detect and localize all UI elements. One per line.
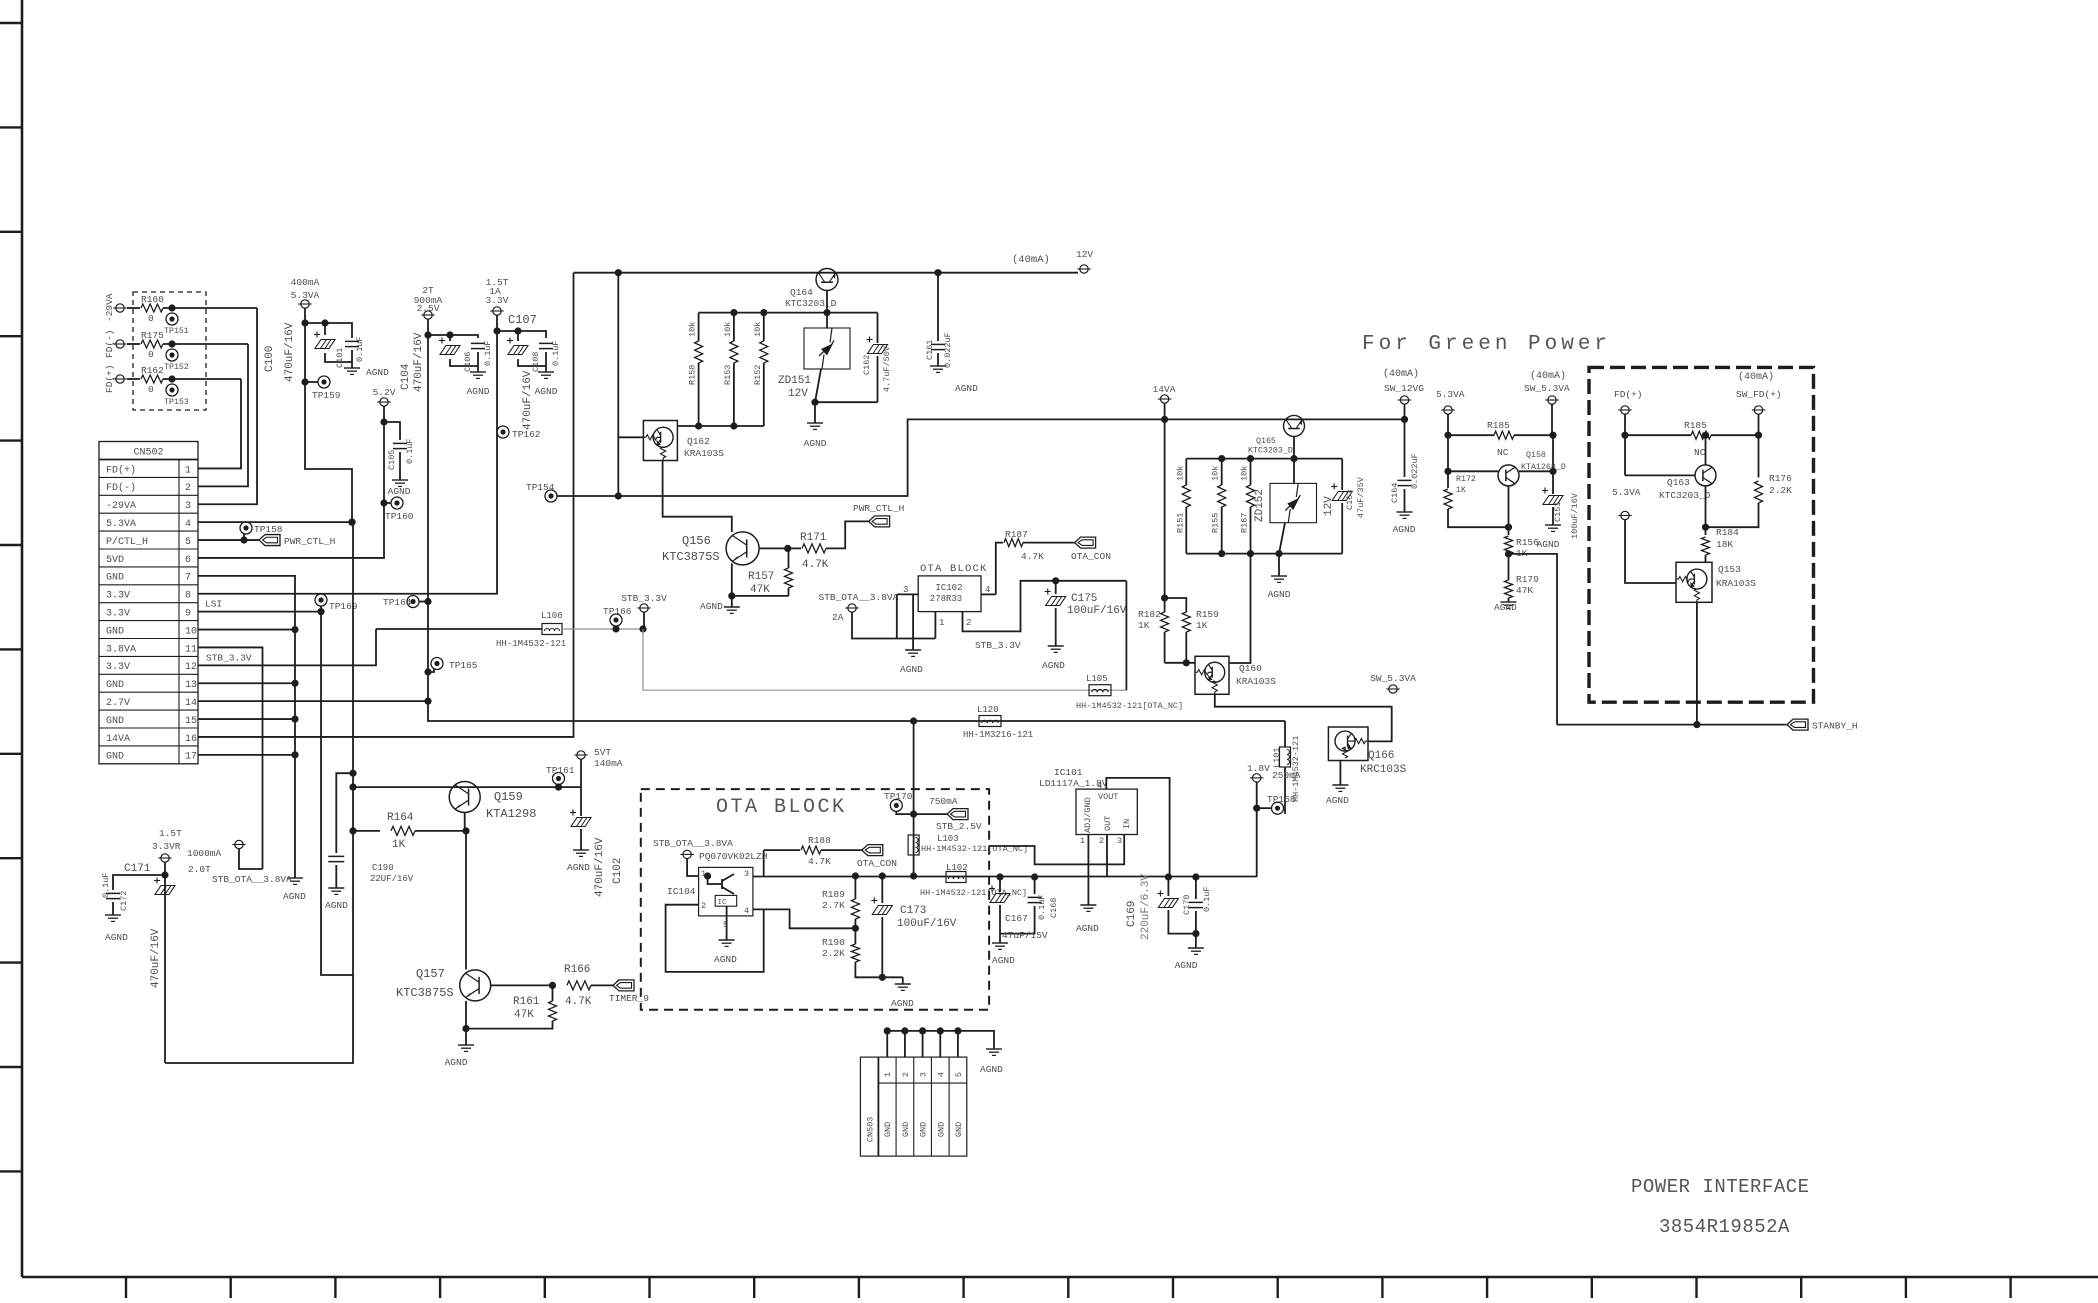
svg-text:KTA1298: KTA1298: [486, 807, 536, 821]
svg-text:R172: R172: [1456, 475, 1476, 484]
svg-text:0.1uF: 0.1uF: [101, 872, 111, 898]
svg-text:OUT: OUT: [1103, 816, 1113, 831]
svg-text:C100: C100: [264, 346, 276, 372]
svg-text:R187: R187: [1005, 529, 1028, 540]
svg-text:L103: L103: [937, 834, 959, 844]
svg-text:AGND: AGND: [714, 954, 737, 965]
svg-text:R152: R152: [753, 365, 763, 385]
svg-text:Q158: Q158: [1526, 451, 1546, 460]
svg-text:KTA1268_D: KTA1268_D: [1521, 463, 1566, 472]
svg-text:5: 5: [954, 1072, 964, 1077]
svg-text:GND: GND: [954, 1122, 964, 1137]
svg-text:SW_12VG: SW_12VG: [1384, 383, 1424, 394]
svg-text:AGND: AGND: [567, 862, 590, 873]
svg-text:14: 14: [185, 698, 197, 709]
svg-text:18K: 18K: [1716, 539, 1733, 550]
svg-text:C167: C167: [1005, 913, 1028, 924]
svg-text:Q153: Q153: [1718, 564, 1741, 575]
svg-text:OTA_CON: OTA_CON: [857, 858, 897, 869]
svg-text:10k: 10k: [1175, 466, 1185, 481]
svg-text:R167: R167: [1240, 513, 1250, 533]
svg-text:HH-1M4532-121: HH-1M4532-121: [1291, 736, 1301, 802]
svg-text:VOUT: VOUT: [1098, 792, 1118, 802]
svg-text:4: 4: [936, 1072, 946, 1077]
svg-text:AGND: AGND: [804, 438, 827, 449]
svg-text:AGND: AGND: [1537, 539, 1560, 550]
svg-text:GND: GND: [919, 1122, 929, 1137]
svg-text:STB_OTA__3.8VA: STB_OTA__3.8VA: [653, 838, 733, 849]
svg-text:(40mA): (40mA): [1530, 370, 1566, 382]
svg-text:AGND: AGND: [1393, 524, 1416, 535]
svg-text:GND: GND: [106, 752, 124, 763]
svg-text:AGND: AGND: [1076, 923, 1099, 934]
svg-text:14VA: 14VA: [1153, 384, 1176, 395]
svg-text:2.5V: 2.5V: [417, 303, 440, 314]
svg-text:GND: GND: [106, 680, 124, 691]
svg-text:3: 3: [919, 1072, 929, 1077]
svg-text:For Green Power: For Green Power: [1362, 333, 1611, 356]
svg-text:4.7uF/50V: 4.7uF/50V: [882, 345, 892, 392]
svg-text:3.3V: 3.3V: [106, 591, 130, 602]
svg-text:0.1uF: 0.1uF: [355, 336, 365, 362]
svg-text:R157: R157: [748, 571, 774, 583]
svg-text:C168: C168: [1049, 898, 1059, 918]
svg-text:FD(-): FD(-): [106, 482, 136, 494]
svg-text:4.7K: 4.7K: [1021, 551, 1044, 562]
svg-text:7: 7: [185, 573, 191, 584]
svg-text:AGND: AGND: [388, 486, 411, 497]
svg-text:1: 1: [883, 1072, 893, 1077]
svg-text:TP162: TP162: [512, 429, 541, 440]
svg-text:4: 4: [985, 585, 990, 595]
svg-text:100uF/16V: 100uF/16V: [1570, 492, 1580, 539]
svg-text:STB_OTA__3.8VA: STB_OTA__3.8VA: [212, 874, 292, 885]
svg-text:KTC3875S: KTC3875S: [662, 550, 720, 564]
svg-text:17: 17: [185, 752, 197, 763]
svg-text:AGND: AGND: [325, 900, 348, 911]
svg-text:KRA103S: KRA103S: [1236, 676, 1276, 687]
svg-text:4: 4: [1097, 781, 1102, 791]
svg-text:L102: L102: [946, 863, 968, 873]
svg-text:0.022uF: 0.022uF: [1410, 453, 1420, 489]
svg-text:2: 2: [185, 483, 191, 494]
svg-text:10k: 10k: [723, 322, 733, 337]
svg-text:R190: R190: [822, 937, 845, 948]
svg-text:TP164: TP164: [383, 597, 412, 608]
svg-text:14VA: 14VA: [106, 734, 130, 745]
svg-text:5VT: 5VT: [594, 747, 611, 758]
svg-text:5.3VA: 5.3VA: [1612, 487, 1641, 498]
svg-text:ZD152: ZD152: [1254, 489, 1266, 522]
svg-text:R156: R156: [1516, 537, 1539, 548]
svg-text:AGND: AGND: [980, 1064, 1003, 1075]
svg-text:Q156: Q156: [682, 534, 711, 548]
svg-text:12: 12: [185, 662, 197, 673]
svg-text:AGND: AGND: [105, 932, 128, 943]
svg-text:C151: C151: [1553, 502, 1563, 522]
svg-text:GND: GND: [106, 716, 124, 727]
svg-text:1K: 1K: [1138, 620, 1150, 631]
svg-text:4: 4: [185, 519, 191, 530]
svg-text:R161: R161: [513, 996, 540, 1008]
svg-text:LSI: LSI: [205, 599, 222, 610]
svg-text:0.1uF: 0.1uF: [551, 340, 561, 366]
svg-text:220uF/6.3V: 220uF/6.3V: [1140, 874, 1152, 940]
svg-text:STB_3.3V: STB_3.3V: [621, 593, 667, 604]
svg-text:3: 3: [1117, 836, 1122, 846]
svg-text:2.7K: 2.7K: [822, 900, 845, 911]
svg-text:(40mA): (40mA): [1012, 254, 1050, 266]
svg-text:Q163: Q163: [1667, 477, 1690, 488]
svg-text:1.5T: 1.5T: [159, 828, 182, 839]
svg-text:10: 10: [185, 626, 197, 637]
svg-text:100uF/16V: 100uF/16V: [897, 918, 957, 930]
svg-text:47uF/15V: 47uF/15V: [1002, 930, 1048, 941]
svg-text:278R33: 278R33: [930, 594, 962, 604]
svg-text:R185: R185: [1487, 420, 1510, 431]
svg-text:2: 2: [901, 1072, 911, 1077]
svg-text:Q164: Q164: [790, 287, 813, 298]
svg-text:47K: 47K: [1516, 585, 1533, 596]
svg-text:CN503: CN503: [865, 1117, 875, 1143]
svg-text:2: 2: [1099, 836, 1104, 846]
svg-text:P/CTL_H: P/CTL_H: [106, 536, 148, 548]
svg-text:SW_5.3VA: SW_5.3VA: [1524, 383, 1570, 394]
svg-text:5.3VA: 5.3VA: [291, 290, 320, 301]
svg-text:TP152: TP152: [164, 363, 189, 372]
svg-text:47K: 47K: [750, 584, 770, 596]
svg-text:TP154: TP154: [526, 482, 555, 493]
svg-text:4.7K: 4.7K: [802, 559, 829, 571]
svg-text:C105: C105: [387, 450, 397, 470]
svg-text:0.1uF: 0.1uF: [405, 438, 415, 464]
svg-text:8: 8: [185, 591, 191, 602]
svg-text:12V: 12V: [788, 388, 808, 400]
svg-text:ZD151: ZD151: [778, 375, 811, 387]
svg-text:13: 13: [185, 680, 197, 691]
svg-text:R160: R160: [141, 294, 164, 305]
svg-text:STB_3.3V: STB_3.3V: [206, 652, 252, 663]
svg-text:HH-1M4532-121[OTA_NC]: HH-1M4532-121[OTA_NC]: [920, 888, 1027, 898]
svg-text:R171: R171: [800, 532, 827, 544]
svg-text:L106: L106: [541, 611, 563, 621]
svg-text:15: 15: [185, 716, 197, 727]
svg-text:0.022uF: 0.022uF: [943, 332, 953, 368]
svg-text:-29VA: -29VA: [104, 293, 115, 322]
svg-text:5: 5: [185, 537, 191, 548]
svg-text:KRC103S: KRC103S: [1360, 764, 1407, 776]
svg-text:AGND: AGND: [535, 386, 558, 397]
svg-text:2.0T: 2.0T: [188, 864, 211, 875]
svg-text:AGND: AGND: [1326, 795, 1349, 806]
svg-text:Q160: Q160: [1239, 663, 1262, 674]
svg-text:C161: C161: [925, 340, 935, 360]
svg-text:STB_3.3V: STB_3.3V: [975, 640, 1021, 651]
svg-text:3.3VR: 3.3VR: [152, 841, 181, 852]
svg-text:TP166: TP166: [603, 606, 632, 617]
svg-text:3: 3: [185, 501, 191, 512]
svg-text:C106: C106: [463, 352, 473, 372]
svg-text:IC101: IC101: [1054, 767, 1083, 778]
svg-text:FD(+): FD(+): [1614, 389, 1643, 400]
svg-text:KTC3875S: KTC3875S: [396, 986, 454, 1000]
svg-text:750mA: 750mA: [929, 796, 958, 807]
svg-text:C101: C101: [335, 348, 345, 368]
svg-text:R185: R185: [1684, 420, 1707, 431]
svg-text:TP151: TP151: [164, 327, 189, 336]
svg-text:KTC3203_D: KTC3203_D: [1248, 447, 1293, 456]
svg-text:3: 3: [744, 869, 749, 879]
svg-text:10k: 10k: [1211, 466, 1221, 481]
svg-text:OTA BLOCK: OTA BLOCK: [920, 563, 988, 575]
svg-text:SW_FD(+): SW_FD(+): [1736, 389, 1782, 400]
svg-text:AGND: AGND: [700, 601, 723, 612]
svg-text:12V: 12V: [1076, 249, 1093, 260]
svg-text:SW_5.3VA: SW_5.3VA: [1370, 673, 1416, 684]
svg-text:Q157: Q157: [416, 967, 445, 981]
svg-text:KRA103S: KRA103S: [684, 448, 724, 459]
svg-text:2A: 2A: [832, 612, 844, 623]
svg-text:GND: GND: [106, 626, 124, 637]
svg-text:10k: 10k: [753, 322, 763, 337]
svg-text:R176: R176: [1769, 473, 1792, 484]
svg-text:AGND: AGND: [283, 891, 306, 902]
svg-text:10k: 10k: [688, 322, 698, 337]
svg-text:47uF/35V: 47uF/35V: [1356, 476, 1366, 518]
svg-text:AGND: AGND: [1042, 660, 1065, 671]
svg-text:R166: R166: [564, 964, 590, 976]
svg-text:AGND: AGND: [1494, 602, 1517, 613]
svg-text:470uF/16V: 470uF/16V: [594, 837, 606, 897]
svg-text:Q159: Q159: [494, 790, 523, 804]
svg-text:R158: R158: [688, 365, 698, 385]
svg-text:TP160: TP160: [385, 511, 414, 522]
svg-text:STB_2.5V: STB_2.5V: [936, 821, 982, 832]
svg-text:IN: IN: [1122, 819, 1132, 829]
svg-text:KTC3203_D: KTC3203_D: [785, 298, 837, 309]
svg-text:470uF/16V: 470uF/16V: [284, 322, 296, 382]
svg-text:1K: 1K: [1456, 486, 1466, 495]
svg-text:2: 2: [701, 901, 706, 911]
svg-text:5.3VA: 5.3VA: [1436, 389, 1465, 400]
svg-text:4.7K: 4.7K: [565, 996, 592, 1008]
svg-text:0: 0: [148, 384, 154, 395]
svg-text:TIMER_9: TIMER_9: [609, 993, 649, 1004]
svg-text:0.1uF: 0.1uF: [1202, 886, 1212, 912]
svg-text:6: 6: [185, 555, 191, 566]
svg-text:GND: GND: [901, 1122, 911, 1137]
svg-text:HH-1M4532-121[OTA_NC]: HH-1M4532-121[OTA_NC]: [1076, 701, 1183, 711]
svg-text:47K: 47K: [514, 1009, 534, 1021]
svg-text:4: 4: [744, 906, 749, 916]
svg-text:R155: R155: [1211, 513, 1221, 533]
svg-text:AGND: AGND: [891, 998, 914, 1009]
svg-text:CN502: CN502: [133, 448, 163, 459]
svg-text:R188: R188: [808, 835, 831, 846]
svg-text:C169: C169: [1126, 901, 1138, 927]
svg-text:R182: R182: [1138, 609, 1161, 620]
svg-text:R179: R179: [1516, 574, 1539, 585]
svg-text:-29VA: -29VA: [106, 501, 136, 512]
svg-text:C102: C102: [612, 858, 624, 884]
svg-text:GND: GND: [106, 573, 124, 584]
svg-text:TP159: TP159: [312, 390, 341, 401]
svg-text:OTA BLOCK: OTA BLOCK: [716, 796, 847, 819]
svg-text:PWR_CTL_H: PWR_CTL_H: [284, 536, 335, 547]
svg-text:100uF/16V: 100uF/16V: [1067, 605, 1127, 617]
svg-text:AGND: AGND: [955, 383, 978, 394]
svg-text:C107: C107: [508, 313, 537, 327]
svg-text:C162: C162: [862, 355, 872, 375]
svg-text:R151: R151: [1175, 513, 1185, 533]
svg-text:10k: 10k: [1240, 466, 1250, 481]
svg-text:C164: C164: [1390, 483, 1400, 503]
svg-text:C170: C170: [1182, 895, 1192, 915]
svg-text:TP158: TP158: [254, 524, 283, 535]
svg-text:R153: R153: [723, 365, 733, 385]
svg-text:FD(+): FD(+): [106, 464, 136, 476]
svg-text:HH-1M4532-121: HH-1M4532-121: [496, 639, 566, 649]
svg-text:R159: R159: [1196, 609, 1219, 620]
svg-text:NC: NC: [1694, 447, 1706, 458]
svg-text:STANBY_H: STANBY_H: [1812, 721, 1858, 732]
svg-text:R175: R175: [141, 330, 164, 341]
svg-text:TP168: TP168: [1267, 794, 1296, 805]
svg-text:AGND: AGND: [366, 367, 389, 378]
svg-text:Q165: Q165: [1256, 437, 1276, 446]
svg-text:C172: C172: [119, 891, 129, 911]
svg-text:R189: R189: [822, 889, 845, 900]
svg-text:KTC3203_D: KTC3203_D: [1659, 490, 1711, 501]
svg-text:C104: C104: [400, 363, 412, 390]
svg-text:0.1uF: 0.1uF: [483, 340, 493, 366]
svg-text:3.3V: 3.3V: [106, 662, 130, 673]
svg-text:POWER INTERFACE: POWER INTERFACE: [1631, 1176, 1810, 1198]
svg-text:0: 0: [148, 349, 154, 360]
svg-text:TP161: TP161: [546, 765, 575, 776]
svg-text:PQ070VK02LZH: PQ070VK02LZH: [699, 851, 767, 862]
svg-text:C108: C108: [531, 352, 541, 372]
svg-text:NC: NC: [1497, 447, 1509, 458]
svg-text:2: 2: [966, 618, 971, 628]
svg-text:3.3V: 3.3V: [106, 609, 130, 620]
svg-text:140mA: 140mA: [594, 758, 623, 769]
svg-text:470uF/16V: 470uF/16V: [150, 928, 162, 988]
svg-text:1: 1: [1080, 836, 1085, 846]
svg-text:5VD: 5VD: [106, 555, 124, 566]
svg-text:IC: IC: [717, 899, 727, 907]
svg-text:AGND: AGND: [900, 664, 923, 675]
svg-text:470uF/16V: 470uF/16V: [522, 370, 534, 430]
svg-text:1: 1: [939, 618, 944, 628]
svg-text:5.2V: 5.2V: [373, 387, 396, 398]
svg-text:(40mA): (40mA): [1738, 371, 1774, 383]
svg-text:C173: C173: [900, 905, 926, 917]
svg-text:2.2K: 2.2K: [1769, 485, 1792, 496]
svg-text:4.7K: 4.7K: [808, 856, 831, 867]
svg-text:TP170: TP170: [884, 791, 913, 802]
svg-text:3854R19852A: 3854R19852A: [1659, 1216, 1790, 1238]
svg-text:470uF/16V: 470uF/16V: [413, 332, 425, 392]
svg-text:2.7V: 2.7V: [106, 698, 130, 709]
svg-text:KRA103S: KRA103S: [1716, 578, 1756, 589]
svg-text:R164: R164: [387, 812, 414, 824]
svg-text:11: 11: [185, 644, 197, 655]
svg-text:1K: 1K: [392, 839, 406, 851]
svg-text:C175: C175: [1071, 593, 1097, 605]
svg-text:L101: L101: [1272, 748, 1282, 768]
svg-text:AGND: AGND: [445, 1057, 468, 1068]
svg-text:AGND: AGND: [1175, 960, 1198, 971]
svg-text:GND: GND: [936, 1122, 946, 1137]
svg-text:2.2K: 2.2K: [822, 948, 845, 959]
svg-text:FD(-): FD(-): [104, 329, 115, 358]
svg-text:R162: R162: [141, 365, 164, 376]
svg-text:PWR_CTL_H: PWR_CTL_H: [853, 503, 904, 514]
svg-text:1: 1: [185, 465, 191, 476]
svg-text:1000mA: 1000mA: [187, 848, 222, 859]
svg-text:L120: L120: [977, 705, 999, 715]
svg-text:GND: GND: [883, 1122, 893, 1137]
svg-text:AGND: AGND: [467, 386, 490, 397]
svg-text:AGND: AGND: [992, 955, 1015, 966]
svg-text:TP153: TP153: [164, 398, 189, 407]
svg-text:FD(+): FD(+): [104, 364, 115, 393]
svg-text:AGND: AGND: [1268, 589, 1291, 600]
svg-text:OTA_CON: OTA_CON: [1071, 551, 1111, 562]
svg-text:Q162: Q162: [687, 436, 710, 447]
svg-text:0.1uF: 0.1uF: [1037, 894, 1047, 920]
svg-text:0: 0: [148, 313, 154, 324]
svg-text:400mA: 400mA: [291, 277, 320, 288]
svg-text:3.8VA: 3.8VA: [106, 644, 136, 655]
svg-text:L105: L105: [1086, 674, 1108, 684]
svg-text:(40mA): (40mA): [1383, 368, 1419, 380]
svg-text:1.8V: 1.8V: [1247, 763, 1270, 774]
svg-text:Q166: Q166: [1368, 750, 1394, 762]
svg-text:250mA: 250mA: [1272, 770, 1301, 781]
svg-text:5.3VA: 5.3VA: [106, 519, 136, 530]
svg-text:3.3V: 3.3V: [486, 295, 509, 306]
svg-text:R184: R184: [1716, 527, 1739, 538]
svg-text:22UF/16V: 22UF/16V: [370, 874, 414, 884]
svg-text:ADJ/GND: ADJ/GND: [1083, 797, 1093, 833]
svg-text:TP165: TP165: [449, 660, 478, 671]
svg-text:16: 16: [185, 734, 197, 745]
svg-text:HH-1M3216-121: HH-1M3216-121: [963, 730, 1033, 740]
svg-text:STB_OTA__3.8VA: STB_OTA__3.8VA: [819, 592, 899, 603]
svg-text:IC102: IC102: [935, 583, 962, 593]
svg-text:C190: C190: [372, 863, 394, 873]
svg-text:9: 9: [185, 609, 191, 620]
svg-text:1K: 1K: [1196, 620, 1208, 631]
svg-text:3: 3: [903, 585, 908, 595]
svg-text:C163: C163: [1345, 490, 1355, 510]
svg-text:IC104: IC104: [667, 886, 696, 897]
svg-text:C171: C171: [124, 863, 151, 875]
